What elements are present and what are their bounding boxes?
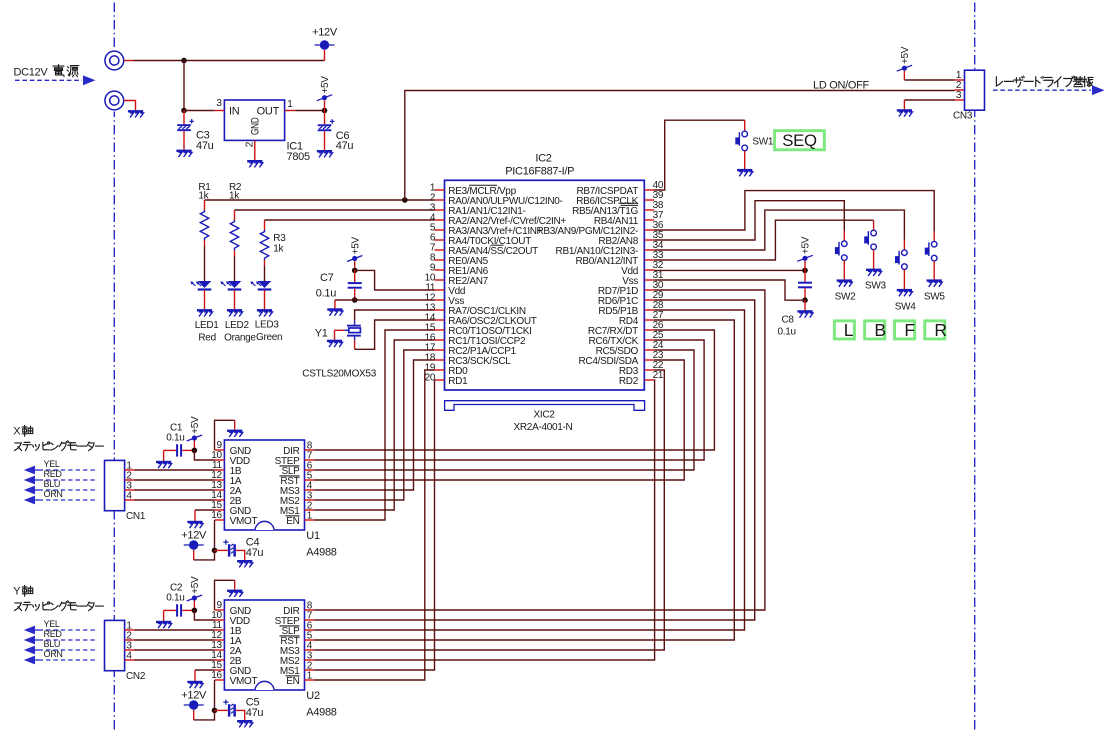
pin 14 2B [215,499,225,501]
power +5V [324,100,326,110]
wire crystal ground [335,329,345,331]
pin 15 GND [215,669,225,671]
svg-text:Y: Y [13,586,21,598]
svg-text:EN: EN [286,676,299,687]
arrow laser board [993,89,1091,91]
ground [197,310,213,316]
svg-text:1: 1 [307,511,313,522]
switch SW1 [735,131,747,151]
svg-text:+5V: +5V [350,236,361,254]
pin 16 VMOT [215,519,225,521]
pin 17 RC2/P1A/CCP1 [435,349,445,351]
wire [135,649,215,651]
svg-text:LED1: LED1 [195,320,220,331]
pin 3 [125,649,135,651]
pin 40 RB7/ICSPDAT [644,189,654,191]
pin 20 RD1 [435,379,445,381]
svg-text:CN2: CN2 [126,671,146,682]
svg-text:47u: 47u [336,140,354,152]
svg-text:F: F [904,320,914,340]
pin 5 RST [305,639,315,641]
svg-text:0.1u: 0.1u [166,433,184,444]
svg-text:SW3: SW3 [865,281,887,292]
svg-text:XR2A-4001-N: XR2A-4001-N [514,422,573,433]
wire RD2 to U2 MS2 [315,380,655,660]
capacitor C6 [324,111,326,125]
ground [227,591,243,597]
pin 9 RE1/AN6 [435,269,445,271]
wire motor YEL [39,629,96,631]
pin 2 MS1 [305,669,315,671]
pin 11 Vdd [435,289,445,291]
svg-text:0.1u: 0.1u [778,327,796,338]
resistor R3 [260,220,268,266]
ground [227,431,243,437]
connector CN3 [955,79,965,81]
power +5V [187,416,202,441]
switch SW2 [835,241,847,261]
wire motor ORN [39,659,96,661]
pin 36 RB3/AN9/PGM/C12IN2- [644,229,654,231]
svg-text:SW2: SW2 [835,292,857,303]
pin 9 GND [215,609,225,611]
pin 3 RA1/AN1/C12IN1- [435,209,445,211]
wire RD5 to U2 SLP [315,310,745,630]
power +12V [181,690,207,710]
svg-text:BLU: BLU [44,639,61,649]
wire minus to ground [124,101,136,111]
underline ICSPCLK [619,202,639,204]
wire GND pin9 loop [215,420,235,450]
pin 10 RE2/AN7 [435,279,445,281]
wire Vdd pin11 [355,270,435,290]
pin 3 MS2 [305,659,315,661]
power +5V [347,236,362,261]
pin 29 RD6/P1C [644,299,654,301]
pin 7 STEP [305,459,315,461]
capacitor C4 [215,549,228,551]
connector CN1 [105,460,125,510]
svg-text:0.1u: 0.1u [316,287,336,299]
svg-text:4: 4 [126,650,132,661]
pin 14 2B [215,659,225,661]
wire Vss pin31 [654,280,805,300]
overline SLP [280,465,300,467]
pin 13 2A [215,489,225,491]
pin 14 RA6/OSC2/CLKOUT [435,319,445,321]
wire VDD [194,450,214,460]
wire OSC2 pin14 [354,340,356,349]
wire [135,479,215,481]
svg-text:A4988: A4988 [306,546,336,558]
svg-text:U1: U1 [306,530,320,542]
svg-text:X: X [13,426,21,438]
pin 2 MS1 [305,509,315,511]
pin 11 1B [215,629,225,631]
annotation SEQ [775,131,825,150]
wire RB0 to SW3 [654,220,873,260]
LED LED2 [220,281,241,291]
svg-text:YEL: YEL [44,459,60,469]
wire Vss pin12 [335,299,435,301]
wire RA2 to R3 [265,219,435,221]
svg-text:16: 16 [211,670,222,681]
svg-text:C8: C8 [782,315,795,326]
ground [317,151,333,157]
pin 22 RD3 [644,369,654,371]
pin 37 RB4/AN11 [644,219,654,221]
wire [264,266,266,281]
svg-text:3: 3 [216,98,222,109]
ground [737,170,753,176]
pin 16 VMOT [215,679,225,681]
svg-text:GND: GND [250,117,262,135]
power +12V [324,50,326,61]
junction [802,268,808,274]
wire [135,489,215,491]
pin 2 [125,639,135,641]
ground [866,270,882,276]
junction [352,297,358,303]
switch SW3 [864,230,876,250]
wire LD ON/OFF [405,91,955,201]
driver U2 A4988 [224,600,304,690]
wire motor ORN [39,499,96,501]
arrow DC12V in [15,79,82,81]
wire [234,256,236,281]
pin 1 [125,629,135,631]
junction [212,548,218,554]
wire RC2 to U1 MS2 [315,350,435,500]
svg-text:RED: RED [44,629,63,639]
switch SW4 [895,250,907,270]
junction [181,58,187,64]
wire Vdd pin32 [654,269,805,271]
pin 10 VDD [215,619,225,621]
svg-text:RD1: RD1 [448,376,468,387]
wire CN3 pin3 ground [904,99,954,101]
wire RA1 to R2 [235,209,435,211]
svg-text:2: 2 [245,141,256,147]
overline SS [491,244,504,246]
wire RC5 to U1 SLP [315,350,695,470]
svg-text:Y1: Y1 [315,328,328,340]
LED LED3 [250,281,271,291]
pin 6 SLP [305,469,315,471]
svg-text:1: 1 [307,671,313,682]
overline RST [280,635,300,637]
wire RD1 to U2 MS1 [315,380,435,670]
regulator IC1 7805 [224,100,284,140]
svg-text:0.1u: 0.1u [166,593,184,604]
wire RD3 to U2 MS3 [315,370,665,650]
svg-text:ORN: ORN [44,649,63,659]
pin 32 Vdd [644,269,654,271]
svg-text:Green: Green [256,332,282,343]
wire motor YEL [39,469,96,471]
overline SLP [280,625,300,627]
ground [237,721,253,727]
wire [135,629,215,631]
wire +5V to CN3 pin1 [897,46,912,71]
pin 38 RB5/AN13/T1G [644,209,654,211]
annotation R [925,321,945,339]
wire VMOT [214,520,216,550]
ground [156,622,172,628]
wire [204,246,206,281]
pin 33 RB0/AN12/INT [644,259,654,261]
ground [156,462,172,468]
pin 4 MS3 [305,489,315,491]
ground [257,310,273,316]
socket XIC2 XR2A-4001-N [445,401,645,411]
svg-text:+12V: +12V [181,690,207,702]
svg-text:+12V: +12V [312,26,338,38]
ground [327,310,343,316]
svg-text:7805: 7805 [287,151,310,163]
junction [192,448,198,454]
ground [247,161,263,167]
wire [135,469,215,471]
svg-text:CN3: CN3 [953,111,973,122]
LED LED1 [190,281,211,291]
ground [187,682,203,688]
svg-text:SW5: SW5 [924,292,946,303]
svg-text:PIC16F887-I/P: PIC16F887-I/P [505,166,574,178]
pin 1 [125,469,135,471]
ground [927,281,943,287]
svg-text:LED2: LED2 [225,320,250,331]
wire RC1 to U1 MS1 [315,340,435,510]
pin 2 RA0/AN0/ULPWU/C12IN0- [435,199,445,201]
wire GND pin15 [195,509,215,511]
pin 7 STEP [305,619,315,621]
wire +12V rail [124,60,134,62]
pin 8 DIR [305,609,315,611]
pin 4 RA2/AN2/Vref-/CVref/C2IN+ [435,219,445,221]
ground [837,281,853,287]
overline RST [280,475,300,477]
wire GND pin9 loop [215,580,235,610]
overline MCLR [469,184,497,186]
wire OSC1 pin13 [355,310,435,320]
pin 1 EN [305,519,315,521]
wire RB3 to SW5 [654,191,934,232]
wire RD0 to U2 EN [315,370,435,680]
wire RB2 to SW2 [654,201,844,240]
pin 23 RC4/SDI/SDA [644,359,654,361]
wire RC6 to U1 STEP [315,340,705,460]
overline T1G [621,204,639,206]
wire RA0 to R1 [205,199,435,201]
svg-text:IC2: IC2 [535,152,551,164]
svg-text:LD ON/OFF: LD ON/OFF [813,80,870,92]
svg-text:+5V: +5V [900,46,911,64]
wire RD4 to U2 RST [315,320,735,640]
wire RC0 to U1 EN [315,330,435,520]
pin 13 2A [215,649,225,651]
svg-text:+5V: +5V [801,236,812,254]
power +5V [187,576,202,601]
pin 5 RA3/AN3/Vref+/C1IN+ [435,229,445,231]
ground [187,522,203,528]
capacitor C8 [804,270,806,281]
svg-text:R3: R3 [273,233,286,244]
svg-text:R: R [934,320,946,340]
overline EN [286,515,300,517]
connector power + [105,51,124,70]
pin 35 RB2/AN8 [644,239,654,241]
power +5V [804,261,806,270]
svg-text:1: 1 [287,99,293,110]
wire RC3 to U1 MS3 [315,360,435,490]
wire GND pin15 [195,669,215,671]
pin 6 RA4/T0CKI/C1OUT [435,239,445,241]
pin 25 RC6/TX/CK [644,339,654,341]
pin 6 SLP [305,629,315,631]
wire [135,659,215,661]
pin 12 1A [215,479,225,481]
junction [402,197,408,203]
annotation L [834,321,854,339]
wire [135,639,215,641]
pin 10 VDD [215,459,225,461]
junction [322,108,328,114]
wire RC4 to U1 RST [315,360,685,480]
ground [237,561,253,567]
overline EN [286,675,300,677]
pin 3 [125,489,135,491]
pin 9 GND [215,449,225,451]
junction [802,297,808,303]
ground [128,111,144,117]
wire RD6 to U2 STEP [315,300,755,620]
svg-text:+5V: +5V [190,416,201,434]
svg-text:47u: 47u [196,140,214,152]
pin 34 RB1/AN10/C12IN3- [644,249,654,251]
wire motor BLU [39,489,96,491]
svg-text:VMOT: VMOT [230,516,258,527]
junction [181,108,187,114]
junction [352,268,358,274]
capacitor C5 [215,709,228,711]
ground [176,151,192,157]
capacitor C2 [164,609,176,611]
svg-text:YEL: YEL [44,619,60,629]
svg-text:IN: IN [229,105,240,117]
svg-text:Red: Red [198,333,215,344]
wire VMOT [214,680,216,710]
pin 7 RA5/AN4/SS/C2OUT [435,249,445,251]
svg-text:1k: 1k [273,244,284,255]
svg-text:VMOT: VMOT [230,676,258,687]
connector power - [105,91,124,110]
pin 5 RST [305,479,315,481]
wire [135,499,215,501]
wire VDD [194,610,214,620]
wire motor RED [39,639,96,641]
crystal Y1 CSTLS20MOX53 [354,320,356,324]
pin 1 RE3/MCLR/Vpp [435,189,445,191]
svg-text:ORN: ORN [44,489,63,499]
svg-text:47u: 47u [246,707,264,719]
junction [192,608,198,614]
wire motor BLU [39,649,96,651]
pin 24 RC5/SDO [644,349,654,351]
ground [804,300,806,310]
pin 8 DIR [305,449,315,451]
pin 19 RD0 [435,369,445,371]
ground [897,110,913,116]
wire RD7 to U2 DIR [315,290,765,610]
svg-text:16: 16 [211,510,222,521]
svg-text:+12V: +12V [181,530,207,542]
svg-text:C7: C7 [320,272,334,284]
pin 2 [125,479,135,481]
svg-text:+5V: +5V [320,76,331,94]
microcontroller IC2 PIC16F887-I/P [445,180,645,390]
capacitor C1 [164,449,176,451]
pin 39 RB6/ICSPCLK [644,199,654,201]
svg-text:RED: RED [44,469,63,479]
pin 4 [125,499,135,501]
svg-text:XIC2: XIC2 [533,410,555,421]
pin 30 RD7/P1D [644,289,654,291]
pin 4 [125,659,135,661]
pin 26 RC7/RX/DT [644,329,654,331]
pin 8 RE0/AN5 [435,259,445,261]
pin 18 RC3/SCK/SCL [435,359,445,361]
svg-text:EN: EN [286,516,299,527]
pin 31 Vss [644,279,654,281]
pin 11 1B [215,469,225,471]
switch SW5 [925,241,937,261]
svg-text:A4988: A4988 [306,706,336,718]
svg-text:B: B [874,320,885,340]
svg-text:SW4: SW4 [895,302,917,313]
pin 1 EN [305,679,315,681]
svg-text:DC12V: DC12V [14,67,49,79]
label laser drive board [996,76,1093,87]
capacitor C7 [354,270,356,282]
svg-text:SEQ: SEQ [782,131,817,150]
junction [212,708,218,714]
resistor R1 [200,200,208,246]
svg-text:3: 3 [956,90,962,101]
svg-text:CSTLS20MOX53: CSTLS20MOX53 [302,369,376,380]
svg-text:OUT: OUT [257,105,280,117]
pin 13 RA7/OSC1/CLKIN [435,309,445,311]
capacitor C3 [183,111,185,125]
connector CN2 [105,620,125,670]
wire to regulator input [183,61,185,111]
power +12V [181,530,207,550]
svg-text:47u: 47u [246,547,264,559]
svg-text:LED3: LED3 [255,320,280,331]
pin 3 MS2 [305,499,315,501]
pin 21 RD2 [644,379,654,381]
pin 12 Vss [435,299,445,301]
annotation B [865,321,885,339]
svg-text:BLU: BLU [44,479,61,489]
driver U1 A4988 [224,440,304,530]
wire motor RED [39,479,96,481]
pin 12 1A [215,639,225,641]
resistor R2 [230,210,238,256]
wire RC7 to U1 DIR [315,330,715,450]
ground [897,290,913,296]
pin 16 RC1/T1OSI/CCP2 [435,339,445,341]
